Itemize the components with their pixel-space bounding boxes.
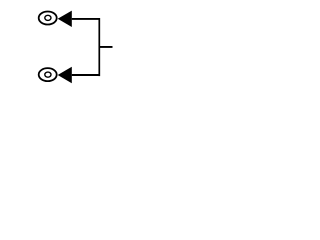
wire W1 (top horizontal) [72, 18, 100, 20]
node tap stub [99, 46, 112, 48]
terminal T2 inner circle [45, 72, 51, 77]
arrowhead A1 [58, 11, 72, 27]
terminal T2 outer circle [39, 68, 57, 81]
wire W3 (vertical bus) [98, 18, 100, 76]
arrowhead A2 [58, 67, 72, 83]
terminal T1 inner circle [45, 15, 51, 20]
terminal T1 outer circle [39, 12, 57, 25]
wire W2 (bottom horizontal) [72, 74, 100, 76]
